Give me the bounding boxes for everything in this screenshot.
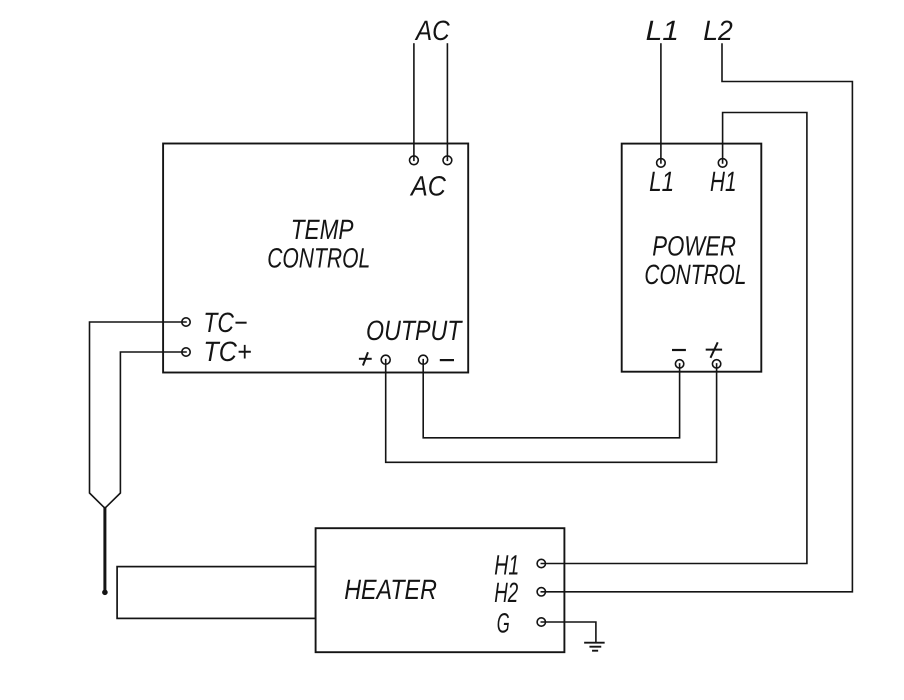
wire L2 to heater H2: [541, 44, 852, 592]
wire TC+: [105, 352, 186, 508]
wire OUTPUT - to power control -: [423, 360, 679, 438]
wire AC line 2: [446, 44, 448, 160]
svg-text:CONTROL: CONTROL: [644, 259, 746, 290]
svg-text:L2: L2: [703, 15, 733, 46]
svg-text:H2: H2: [494, 577, 518, 608]
svg-text:OUTPUT: OUTPUT: [366, 315, 463, 346]
svg-text:TC+: TC+: [203, 336, 251, 367]
svg-text:TC−: TC−: [203, 307, 247, 338]
svg-text:H1: H1: [710, 166, 737, 197]
svg-text:G: G: [497, 608, 510, 639]
sign + at OUTPUT: [360, 353, 371, 364]
ground: [585, 643, 604, 651]
wire TC-: [90, 322, 187, 508]
terminal G on heater: [537, 618, 545, 626]
wire power control H1 to heater H1: [541, 113, 807, 564]
sign - at OUTPUT: [441, 359, 453, 361]
wire L1: [660, 44, 662, 163]
terminal TC+ on U1: [182, 348, 190, 356]
svg-text:TEMP: TEMP: [291, 214, 354, 245]
box HEATER: [316, 528, 565, 652]
svg-text:H1: H1: [494, 550, 519, 581]
sign + at U2: [707, 343, 721, 357]
terminal H1 on heater: [537, 559, 545, 567]
svg-text:AC: AC: [409, 171, 446, 202]
terminal H2 on heater: [537, 588, 545, 596]
svg-text:HEATER: HEATER: [344, 574, 437, 605]
svg-text:L1: L1: [649, 166, 674, 197]
terminal OUTPUT + on U1: [381, 355, 390, 364]
box U2 POWER CONTROL: [622, 144, 762, 372]
wire AC line 1: [413, 44, 415, 160]
terminal H1 on U2: [718, 159, 727, 168]
svg-text:AC: AC: [414, 15, 450, 46]
svg-text:L1: L1: [646, 15, 679, 46]
sign - at U2: [673, 349, 685, 351]
terminal AC2 on U1: [443, 156, 452, 165]
box U1 TEMP CONTROL: [163, 144, 468, 373]
terminal + on U2: [712, 360, 720, 368]
terminal L1 on U2: [657, 159, 666, 168]
terminal TC- on U1: [182, 318, 190, 326]
wire G to ground: [541, 622, 596, 642]
terminal OUTPUT - on U1: [419, 355, 428, 364]
terminal - on U2: [675, 360, 683, 368]
thermocouple TC1 probe: [102, 508, 108, 595]
svg-text:CONTROL: CONTROL: [267, 243, 370, 274]
heater element R1: [117, 567, 316, 619]
svg-text:POWER: POWER: [652, 231, 736, 262]
wire OUTPUT + to power control +: [386, 360, 717, 463]
terminal AC1 on U1: [410, 156, 419, 165]
